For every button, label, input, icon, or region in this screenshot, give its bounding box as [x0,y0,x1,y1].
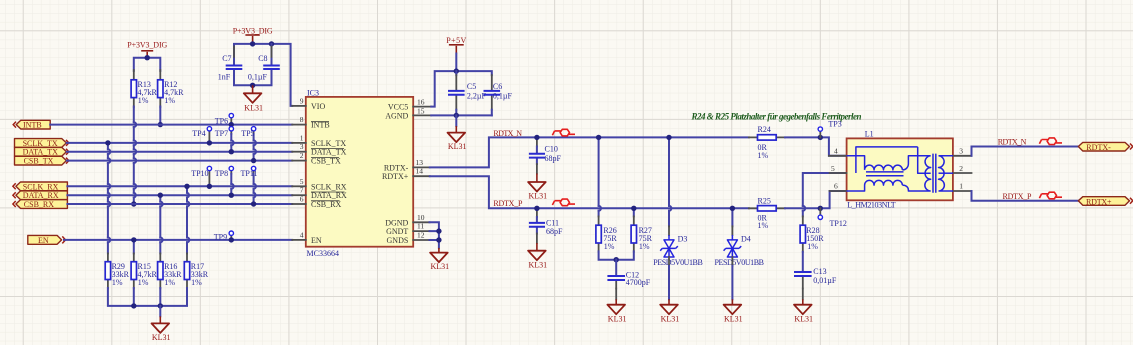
testpoint TP5 [241,127,256,161]
testpoint TP7 [215,127,234,152]
node TP5-CSB_TX [251,158,256,163]
testpoint TP11 [241,166,258,204]
svg-text:13: 13 [416,158,424,167]
wire C7/C8 top rail to IC pin9 [234,44,292,106]
svg-text:4: 4 [834,146,838,155]
node TP10-SCLK_RX [207,184,212,189]
power P+5V [446,36,466,53]
ground KL31 (IC) [430,248,449,271]
wire CSB_TX net [67,160,292,162]
node rail R16 [158,303,163,308]
L1 transformer core [933,154,936,193]
svg-text:1%: 1% [164,96,175,105]
svg-text:TP11: TP11 [241,169,258,178]
node 3V3 junction [145,55,150,60]
svg-text:8: 8 [300,115,304,124]
svg-text:15: 15 [417,106,425,115]
svg-text:1%: 1% [639,242,650,251]
node R12-INTB [158,122,163,127]
L1 primary winding [918,147,931,191]
wire R12 to INTB [159,107,161,125]
pin 5 SCLK_RX [292,177,347,192]
testpoint TP10 [191,166,211,186]
differential pair marker (RDTX_N right) [1039,138,1062,145]
resistor R13 [131,70,157,107]
ground KL31 (D3) [660,257,679,324]
wire DATA_RX net [67,194,292,196]
wire R24 to L1 pin4 [785,137,847,155]
svg-text:11: 11 [417,222,424,231]
wire D4 column [731,208,733,235]
node R27-RDTX_P [631,206,636,211]
svg-text:C7: C7 [222,54,231,63]
svg-text:1: 1 [959,182,963,191]
node R29-SCLK_TX [105,140,110,145]
wire INTB net [50,124,292,126]
node C8 top junction [269,41,274,46]
svg-text:7: 7 [300,186,304,195]
capacitor C10 [529,137,562,173]
port EN [28,235,66,245]
node D3-RDTX_N [666,135,671,140]
ground KL31 (C10) [528,174,547,201]
svg-text:6: 6 [300,195,304,204]
wire resistor bottom rail [108,288,187,306]
pin 4 L1 [829,146,847,156]
svg-text:CSB_TX: CSB_TX [311,157,341,166]
svg-text:AGND: AGND [385,111,408,120]
wire D3 column [669,137,671,235]
node TP6-INTB [229,122,234,127]
node D4-RDTX_P [730,206,735,211]
node rail R15 [131,303,136,308]
node R17-SCLK_RX [184,184,189,189]
port DATA_TX [15,147,69,156]
svg-text:C11: C11 [546,218,559,227]
resistor R25 [749,197,785,230]
node TP9-EN [229,237,234,242]
svg-text:2: 2 [959,164,963,173]
node R16-DATA_RX [158,193,163,198]
capacitor C12 [607,260,650,289]
wire R28 hop over RDTX_P [803,206,805,211]
pin 6 CSB_RX [292,195,341,210]
svg-text:C6: C6 [493,82,502,91]
wire L1 pin5 to R28 [803,173,847,216]
ground KL31 (C7/C8) [244,85,263,112]
svg-text:EN: EN [38,236,49,245]
wire pin3 to RDTX- port [972,147,1079,156]
svg-text:0,1µF: 0,1µF [493,92,513,101]
svg-text:KL31: KL31 [608,315,627,324]
power P+3V3_DIG (left) [127,40,167,57]
capacitor C13 [794,252,837,289]
wire EN net [64,239,292,241]
wire CSB_RX net [67,203,292,205]
ground KL31 (C13) [794,289,813,324]
resistor R12 [158,70,185,107]
svg-text:1%: 1% [164,278,175,287]
node R26-RDTX_N [596,135,601,140]
svg-text:MC33664: MC33664 [307,249,339,258]
port RDTX+ [1078,197,1133,207]
pin 1 SCLK_TX [292,133,346,148]
svg-text:DATA_TX: DATA_TX [23,148,59,157]
testpoint TP6 [215,113,234,125]
pin 15 AGND [385,106,431,120]
node TP8-DATA_RX [229,193,234,198]
svg-text:3: 3 [959,146,963,155]
wire DATA_TX net [67,151,292,153]
svg-text:D4: D4 [741,235,751,244]
svg-text:0,1µF: 0,1µF [248,73,268,82]
node R15-EN [131,237,136,242]
svg-text:KL31: KL31 [724,315,743,324]
svg-text:3: 3 [300,142,304,151]
svg-text:TP7: TP7 [215,129,228,138]
port DATA_RX [13,191,68,200]
L1 choke winding lower [847,180,924,191]
svg-text:2: 2 [300,151,304,160]
svg-text:1%: 1% [138,278,149,287]
pin 13 RDTX- [384,158,430,173]
svg-text:KL31: KL31 [431,262,450,271]
capacitor C5 [448,71,487,115]
wire L1 pin5 top rail [856,147,918,173]
wire C7/C8 bottom rail [234,78,272,85]
resistor R15 [131,253,157,288]
transformer L1 body [847,129,953,209]
pin 2 CSB_TX [292,151,341,166]
svg-text:KL31: KL31 [661,315,680,324]
svg-text:SCLK_TX: SCLK_TX [23,139,58,148]
svg-text:KL31: KL31 [794,315,813,324]
port CSB_TX [15,156,69,165]
svg-text:RDTX+: RDTX+ [1086,198,1112,207]
svg-text:INTB: INTB [23,121,42,130]
svg-text:C10: C10 [545,145,558,154]
wire RDTX_P net (pin14) [430,176,749,208]
svg-text:SCLK_TX: SCLK_TX [311,139,346,148]
svg-text:TP6: TP6 [215,117,228,126]
wire R26/R27 bottom rail [599,251,634,259]
svg-text:TP4: TP4 [192,129,205,138]
svg-text:KL31: KL31 [529,192,548,201]
svg-text:RDTX_P: RDTX_P [493,199,523,208]
svg-text:TP10: TP10 [191,169,208,178]
wire DGND/GNDT/GNDS join [430,222,439,248]
svg-text:1%: 1% [604,242,615,251]
pin 8 INTB [292,115,329,130]
wire R17 column [187,186,189,253]
svg-text:16: 16 [417,98,425,107]
svg-text:CSB_TX: CSB_TX [24,157,54,166]
svg-text:L_HM2103NLT: L_HM2103NLT [847,201,896,210]
svg-text:CSB_RX: CSB_RX [311,200,341,209]
svg-text:RDTX_N: RDTX_N [998,137,1027,146]
pin 5 L1 [830,164,847,173]
svg-text:1%: 1% [807,242,818,251]
port INTB [13,120,50,129]
ground KL31 (D4) [724,257,743,324]
svg-text:VIO: VIO [311,102,325,111]
pin 10 DGND [385,213,429,228]
op-amp/IC U1 MC33664 IC3 body [306,88,413,258]
resistor R26 [596,216,618,251]
L1 secondary winding [939,156,953,191]
svg-text:DGND: DGND [385,218,408,227]
svg-text:C13: C13 [813,267,826,276]
wire R29 column [108,143,110,254]
svg-text:L1: L1 [865,129,874,138]
node TP11-CSB_RX [251,201,256,206]
svg-text:SCLK_RX: SCLK_RX [311,182,347,191]
svg-text:C8: C8 [258,54,267,63]
port CSB_RX [13,200,68,209]
svg-text:68pF: 68pF [546,227,563,236]
wire RDTX_N net (pin13) [430,137,749,167]
svg-text:PESD5V0U1BB: PESD5V0U1BB [653,258,703,267]
svg-text:KL31: KL31 [152,333,171,342]
node TP4-SCLK_TX [207,140,212,145]
node GNDT junction [436,228,441,233]
pin 1 L1 [953,182,972,192]
svg-text:68pF: 68pF [545,154,562,163]
node AGND-C5 [454,113,459,118]
svg-text:RDTX_P: RDTX_P [1003,192,1033,201]
svg-text:9: 9 [300,96,304,105]
testpoint TP9 [214,231,234,242]
svg-text:P+3V3_DIG: P+3V3_DIG [127,40,167,49]
testpoint TP3 [818,120,842,138]
testpoint TP8 [215,166,234,195]
node GNDS junction [436,237,441,242]
svg-text:1: 1 [300,133,304,142]
wire P+5V to VCC5 rail [431,54,492,107]
capacitor C11 [529,208,563,243]
svg-text:TP9: TP9 [214,233,227,242]
pin 11 GNDT [386,222,429,237]
svg-text:RDTX-: RDTX- [384,163,409,172]
pin 7 DATA_RX [292,186,347,201]
svg-text:4: 4 [300,230,304,239]
svg-text:TP5: TP5 [241,129,254,138]
node TP7-DATA_TX [229,149,234,154]
pin 2 L1 [953,164,972,173]
pin 14 RDTX+ [382,167,430,182]
resistor R27 [631,216,653,251]
differential pair marker (RDTX_N left) [552,129,575,136]
svg-text:KL31: KL31 [244,103,263,112]
resistor R17 [184,253,209,288]
svg-text:GNDS: GNDS [387,236,409,245]
svg-text:1%: 1% [191,278,202,287]
node TP3-RDTX_N [818,135,823,140]
svg-text:6: 6 [834,182,838,191]
svg-text:P+5V: P+5V [446,36,466,45]
svg-text:12: 12 [417,231,425,240]
resistor R24 [749,125,785,160]
wire R27 column [633,208,635,216]
resistor R16 [158,253,183,288]
svg-text:SCLK_RX: SCLK_RX [23,182,59,191]
svg-text:R25: R25 [758,197,771,206]
testpoint TP4 [192,127,211,143]
svg-text:RDTX-: RDTX- [1086,143,1111,152]
resistor R28 [800,216,824,251]
wire 3V3 rail to R13/R12 [134,58,161,71]
wire SCLK_TX net [67,142,292,144]
node TP12-RDTX_P [818,206,823,211]
node R13-CSB_RX [131,201,136,206]
ground KL31 (C12) [607,289,626,324]
node C7C8 gnd junction [250,83,255,88]
pin 3 L1 [953,146,972,156]
svg-text:RDTX+: RDTX+ [382,172,409,181]
svg-text:DATA_RX: DATA_RX [23,191,59,200]
differential pair marker (RDTX_P right) [1039,192,1062,199]
node C11-RDTX_P [534,206,539,211]
wire AGND rail [431,114,492,116]
port SCLK_TX [15,139,69,148]
svg-text:KL31: KL31 [448,142,467,151]
svg-text:GNDT: GNDT [386,227,408,236]
svg-text:KL31: KL31 [529,261,548,270]
L1 choke winding upper [847,156,924,170]
capacitor C8 [248,44,280,85]
pin 16 VCC5 [388,98,431,112]
ground KL31 (C11) [528,243,547,270]
svg-text:14: 14 [416,167,424,176]
svg-text:TP3: TP3 [828,120,841,129]
wire R15 to EN [133,240,135,254]
testpoint TP12 [818,208,847,228]
svg-text:TP8: TP8 [215,169,228,178]
wire R13 to CSB_RX column [134,107,136,205]
svg-text:EN: EN [311,236,322,245]
svg-text:4700pF: 4700pF [626,278,651,287]
svg-text:TP12: TP12 [830,219,847,228]
svg-text:5: 5 [831,164,835,173]
pin 6 L1 [830,182,847,192]
node 3V3 C7C8 junction [250,41,255,46]
wire R16 column [160,195,162,253]
differential pair marker (RDTX_P left) [552,199,575,206]
pin 3 DATA_TX [292,142,346,157]
wire pin1 to RDTX+ port [972,191,1079,201]
svg-text:1%: 1% [112,278,123,287]
svg-text:10: 10 [417,213,425,222]
svg-text:0,01µF: 0,01µF [813,276,837,285]
resistor R29 [105,253,129,288]
wire R26 column [599,137,601,216]
node +5V junction [454,68,459,73]
svg-text:5: 5 [300,177,304,186]
svg-text:DATA_RX: DATA_RX [311,191,347,200]
node C10-RDTX_N [534,135,539,140]
svg-text:VCC5: VCC5 [388,103,408,112]
svg-text:D3: D3 [678,235,688,244]
svg-text:1%: 1% [758,221,769,230]
svg-text:CSB_RX: CSB_RX [24,200,54,209]
svg-text:1%: 1% [758,151,769,160]
pin 9 VIO [292,96,325,111]
diode D4 PESD5V0U1BB [715,235,765,268]
L1 choke core lines [866,172,904,176]
svg-text:R24: R24 [758,125,771,134]
node C12 junction [614,257,619,262]
power P+3V3_DIG (C7/C8) [233,27,273,44]
svg-text:RDTX_N: RDTX_N [493,129,522,138]
svg-text:IC3: IC3 [307,88,319,97]
capacitor C7 [218,47,243,85]
pin 4 EN [292,230,322,245]
svg-text:1nF: 1nF [218,73,231,82]
svg-text:1%: 1% [138,96,149,105]
svg-text:2,2µF: 2,2µF [467,92,487,101]
ground KL31 (pull resistors) [152,306,171,342]
svg-text:DATA_TX: DATA_TX [311,148,347,157]
ground KL31 (C5) [448,115,467,151]
pin 12 GNDS [387,231,430,245]
svg-text:INTB: INTB [311,121,330,130]
diode D3 PESD5V0U1BB [653,235,703,268]
wire R25 to L1 pin6 [785,191,847,208]
capacitor C6 [484,75,513,115]
svg-text:PESD5V0U1BB: PESD5V0U1BB [715,258,765,267]
wire SCLK_RX net [67,185,292,187]
svg-text:C5: C5 [467,82,476,91]
port SCLK_RX [13,182,68,191]
port RDTX- [1078,142,1133,152]
